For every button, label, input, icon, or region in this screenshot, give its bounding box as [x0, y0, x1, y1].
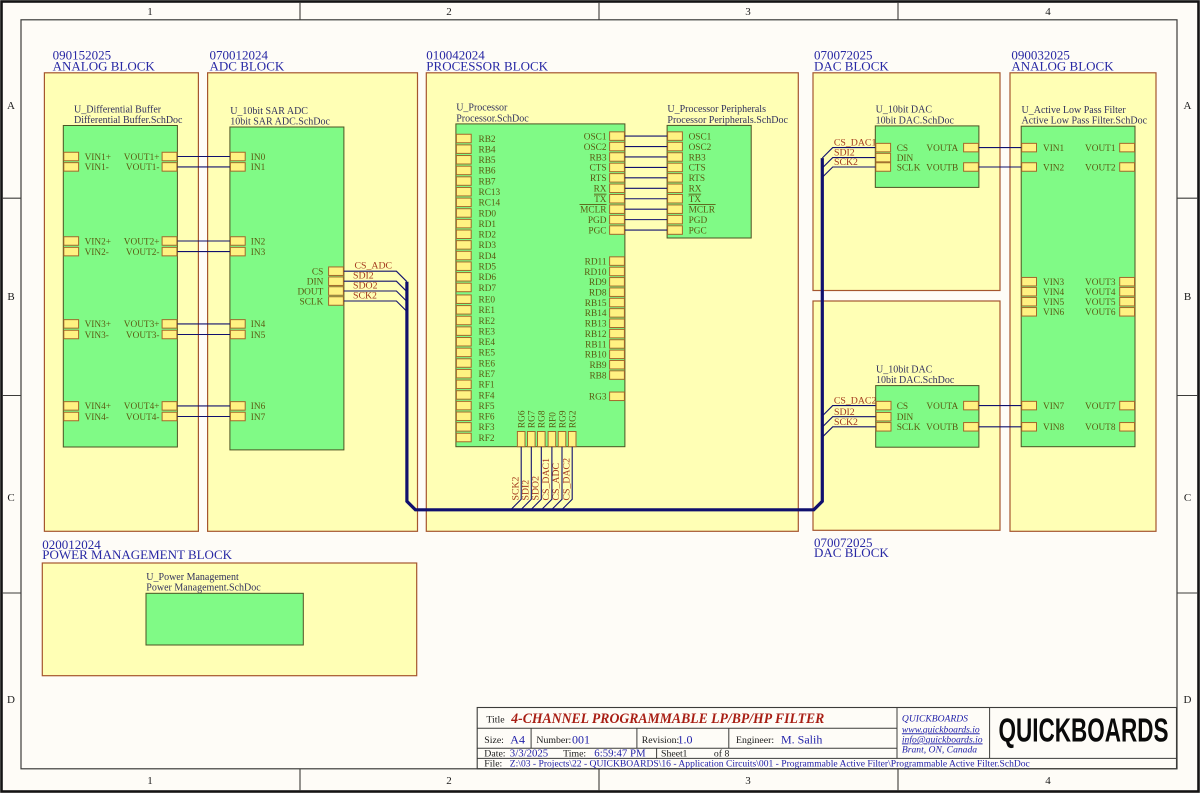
sheet entry PGC — [588, 226, 624, 237]
svg-text:VOUT1+: VOUT1+ — [124, 153, 160, 163]
svg-text:TX: TX — [689, 195, 702, 205]
wire SCK2 to DAC1 — [822, 167, 875, 177]
svg-text:VOUT1-: VOUT1- — [126, 163, 160, 173]
svg-text:VIN2+: VIN2+ — [85, 237, 111, 247]
svg-text:RE7: RE7 — [479, 370, 496, 380]
sheet entry PGD — [588, 215, 625, 226]
sheet entry RC14 — [456, 198, 500, 209]
wire CS_ADC from ADC — [344, 271, 407, 282]
wire SDI2 from ADC — [344, 281, 407, 292]
svg-text:RG3: RG3 — [589, 393, 607, 403]
svg-text:001: 001 — [572, 733, 590, 747]
svg-text:VIN2: VIN2 — [1043, 163, 1065, 173]
sheet entry VIN3- — [64, 330, 109, 341]
svg-text:3: 3 — [745, 6, 751, 18]
blueprint region ANALOG BLOCK right — [1010, 47, 1156, 531]
svg-text:U_10bit SAR ADC: U_10bit SAR ADC — [230, 106, 308, 117]
sheet entry VOUT2- — [126, 247, 177, 258]
svg-text:SCK2: SCK2 — [353, 291, 377, 302]
sheet entry VIN8 — [1022, 423, 1065, 434]
wire SCK2 to DAC2 — [822, 427, 875, 437]
sheet entry RB6 — [456, 166, 496, 177]
wire VOUT2+/IN2 — [177, 240, 230, 242]
svg-text:IN5: IN5 — [251, 331, 266, 341]
svg-text:VIN4-: VIN4- — [85, 413, 109, 423]
svg-text:D: D — [7, 694, 15, 706]
svg-text:Brant, ON, Canada: Brant, ON, Canada — [902, 744, 977, 755]
svg-text:D: D — [1184, 694, 1192, 706]
wire VOUT2-/IN3 — [177, 251, 230, 253]
svg-text:SCLK: SCLK — [897, 163, 921, 173]
sheet entry VOUT1 — [1085, 143, 1134, 154]
wire VOUT1-/IN1 — [177, 166, 230, 168]
svg-text:VIN8: VIN8 — [1043, 423, 1065, 433]
sheet symbol U_10bit SAR ADC — [230, 106, 344, 450]
svg-text:VOUTB: VOUTB — [926, 163, 958, 173]
wire VOUTA/VIN7 — [979, 405, 1021, 407]
svg-text:VIN1-: VIN1- — [85, 163, 109, 173]
svg-text:Z:\03 - Projects\22 - QUICKBOA: Z:\03 - Projects\22 - QUICKBOARDS\16 - A… — [510, 759, 1031, 770]
svg-text:10bit DAC.SchDoc: 10bit DAC.SchDoc — [876, 115, 955, 126]
sheet entry VOUT4+ — [124, 402, 177, 413]
svg-text:1: 1 — [147, 6, 153, 18]
logo QUICKBOARDS — [999, 712, 1169, 749]
svg-text:RD7: RD7 — [479, 284, 497, 294]
sheet entry RB12 — [585, 329, 625, 340]
sheet entry IN6 — [230, 402, 265, 413]
sheet entry RF5 — [456, 401, 494, 412]
wire CS_DAC2 to DAC2 — [822, 406, 875, 416]
svg-text:RB12: RB12 — [585, 330, 607, 340]
svg-text:Power Management.SchDoc: Power Management.SchDoc — [146, 583, 261, 594]
sheet entry RG8 — [538, 410, 548, 447]
svg-text:VOUTB: VOUTB — [926, 423, 958, 433]
svg-text:IN2: IN2 — [251, 237, 266, 247]
svg-text:3/3/2025: 3/3/2025 — [510, 747, 548, 759]
svg-text:VIN1: VIN1 — [1043, 144, 1065, 154]
svg-text:QUICKBOARDS: QUICKBOARDS — [902, 714, 968, 725]
sheet entry OSC1 — [668, 132, 712, 143]
svg-text:PGD: PGD — [588, 216, 607, 226]
sheet entry VOUTA — [926, 401, 978, 412]
svg-text:VOUT3: VOUT3 — [1085, 278, 1116, 288]
svg-text:Processor.SchDoc: Processor.SchDoc — [456, 113, 529, 124]
sheet entry VOUT2 — [1085, 163, 1134, 174]
svg-text:RTS: RTS — [689, 174, 706, 184]
svg-text:U_Processor: U_Processor — [456, 103, 508, 114]
svg-text:RG2: RG2 — [569, 410, 579, 428]
sheet entry RG9 — [558, 410, 568, 447]
svg-text:Size:: Size: — [484, 735, 504, 746]
sheet entry VOUT1+ — [124, 152, 177, 163]
sheet entry OSC2 — [668, 142, 712, 153]
svg-text:RTS: RTS — [590, 174, 607, 184]
sheet entry VOUT3+ — [124, 320, 177, 331]
wire CS_DAC1 to DAC1 — [822, 148, 875, 158]
blueprint region DAC BLOCK top — [813, 47, 1000, 290]
svg-text:File:: File: — [484, 759, 502, 770]
sheet entry VIN3 — [1022, 277, 1065, 288]
sheet entry RG3 — [589, 392, 624, 403]
svg-text:U_Processor Peripherals: U_Processor Peripherals — [667, 104, 766, 115]
svg-text:3: 3 — [745, 775, 751, 787]
wire RG7/SDI2 drop — [521, 447, 532, 510]
svg-text:IN7: IN7 — [251, 413, 266, 423]
sheet entry TX — [594, 194, 624, 205]
sheet entry RTS — [590, 174, 624, 185]
sheet entry RD4 — [456, 251, 496, 262]
svg-text:4: 4 — [1045, 775, 1051, 787]
sheet symbol U_Processor Peripherals — [667, 104, 788, 238]
svg-text:RF3: RF3 — [479, 423, 495, 433]
svg-text:DAC BLOCK: DAC BLOCK — [814, 545, 889, 560]
svg-text:U_10bit DAC: U_10bit DAC — [876, 364, 933, 375]
svg-text:Number:: Number: — [536, 735, 571, 746]
wire RTS processor to peripherals — [625, 177, 667, 179]
svg-text:RB3: RB3 — [689, 153, 706, 163]
svg-text:10bit DAC.SchDoc: 10bit DAC.SchDoc — [876, 375, 955, 386]
sheet entry CS — [876, 143, 908, 154]
svg-text:10bit SAR ADC.SchDoc: 10bit SAR ADC.SchDoc — [230, 116, 330, 127]
svg-text:RD4: RD4 — [479, 252, 497, 262]
sheet entry VOUT4- — [126, 412, 177, 423]
svg-text:VOUTA: VOUTA — [926, 144, 958, 154]
title block — [477, 708, 1176, 769]
sheet entry DIN — [876, 153, 914, 164]
sheet entry RE3 — [456, 327, 495, 338]
svg-text:VOUT4: VOUT4 — [1085, 288, 1116, 298]
svg-text:ANALOG BLOCK: ANALOG BLOCK — [53, 59, 156, 74]
svg-text:VOUT4+: VOUT4+ — [124, 402, 160, 412]
sheet entry RB13 — [585, 319, 625, 330]
svg-text:VOUTA: VOUTA — [926, 402, 958, 412]
sheet entry SCLK — [876, 163, 921, 174]
svg-text:RF2: RF2 — [479, 434, 495, 444]
svg-text:RB9: RB9 — [589, 361, 606, 371]
svg-text:VIN4+: VIN4+ — [85, 402, 111, 412]
svg-text:PGC: PGC — [689, 226, 707, 236]
sheet entry RB11 — [585, 340, 624, 351]
sheet entry PGC — [668, 226, 707, 237]
svg-text:VIN1+: VIN1+ — [85, 153, 111, 163]
svg-text:B: B — [1184, 291, 1191, 303]
sheet entry VIN1+ — [64, 152, 111, 163]
sheet entry SCLK — [300, 297, 344, 308]
svg-text:RB3: RB3 — [589, 153, 606, 163]
svg-text:RD1: RD1 — [479, 220, 497, 230]
svg-text:RF0: RF0 — [548, 412, 558, 428]
sheet entry RE0 — [456, 295, 495, 306]
svg-text:RE5: RE5 — [479, 349, 496, 359]
svg-text:Differential Buffer.SchDoc: Differential Buffer.SchDoc — [74, 115, 183, 126]
sheet entry RC13 — [456, 187, 500, 198]
sheet entry RX — [668, 184, 702, 195]
svg-text:U_Active Low Pass Filter: U_Active Low Pass Filter — [1022, 105, 1127, 116]
sheet entry DIN — [307, 277, 344, 288]
sheet entry OSC1 — [584, 132, 625, 143]
svg-text:RG6: RG6 — [518, 410, 528, 428]
svg-text:OSC1: OSC1 — [584, 132, 607, 142]
svg-text:Revision:: Revision: — [642, 735, 680, 746]
wire RG8/SDO2 drop — [531, 447, 542, 510]
wire VOUTB/VIN8 — [979, 426, 1021, 428]
svg-text:OSC1: OSC1 — [689, 132, 712, 142]
svg-text:VIN2-: VIN2- — [85, 248, 109, 258]
svg-text:ADC BLOCK: ADC BLOCK — [210, 59, 285, 74]
svg-text:SCLK: SCLK — [897, 423, 921, 433]
sheet entry VIN3+ — [64, 320, 111, 331]
svg-text:B: B — [7, 291, 14, 303]
svg-text:RD3: RD3 — [479, 241, 497, 251]
svg-text:PGC: PGC — [588, 226, 606, 236]
sheet entry RD10 — [584, 267, 624, 278]
sheet entry IN5 — [230, 330, 265, 341]
sheet entry CTS — [589, 163, 624, 174]
svg-text:6:59:47 PM: 6:59:47 PM — [594, 747, 646, 759]
sheet entry IN7 — [230, 412, 265, 423]
svg-text:SCK2: SCK2 — [834, 157, 858, 168]
sheet entry RD7 — [456, 283, 496, 294]
svg-text:RE2: RE2 — [479, 317, 496, 327]
title block file row — [484, 759, 1030, 770]
svg-text:Engineer:: Engineer: — [736, 735, 774, 746]
sheet entry RB4 — [456, 145, 496, 156]
svg-text:RX: RX — [594, 185, 607, 195]
svg-text:RB10: RB10 — [585, 351, 607, 361]
svg-text:RX: RX — [689, 185, 702, 195]
svg-text:C: C — [7, 492, 14, 504]
svg-text:RD10: RD10 — [584, 268, 607, 278]
sheet entry RB2 — [456, 134, 496, 145]
sheet symbol U_Differential Buffer — [63, 104, 183, 447]
svg-text:RC14: RC14 — [479, 199, 501, 209]
sheet entry RD3 — [456, 241, 496, 252]
sheet entry IN3 — [230, 247, 265, 258]
svg-text:RF5: RF5 — [479, 402, 495, 412]
wire OSC1 processor to peripherals — [625, 135, 667, 137]
svg-text:VIN4: VIN4 — [1043, 288, 1065, 298]
blueprint region ANALOG BLOCK left — [44, 47, 198, 531]
svg-text:RG8: RG8 — [538, 410, 548, 428]
sheet entry VIN6 — [1022, 308, 1065, 319]
wire RB3 processor to peripherals — [625, 156, 667, 158]
wire RF0/CS_DAC1 drop — [541, 447, 552, 510]
title block date row — [484, 747, 729, 759]
svg-text:VOUT6: VOUT6 — [1085, 308, 1116, 318]
sheet entry RD11 — [585, 257, 625, 268]
sheet entry RE1 — [456, 306, 495, 317]
sheet entry RD0 — [456, 209, 496, 220]
sheet entry RTS — [668, 174, 706, 185]
sheet entry VOUT6 — [1085, 308, 1134, 319]
wire CTS processor to peripherals — [625, 166, 667, 168]
blueprint region DAC BLOCK bottom — [813, 301, 1000, 560]
sheet entry DIN — [876, 412, 913, 423]
sheet entry RD2 — [456, 230, 496, 241]
svg-text:RG9: RG9 — [558, 410, 568, 428]
svg-text:4: 4 — [1045, 6, 1051, 18]
sheet entry RG6 — [517, 410, 527, 447]
svg-text:VIN3: VIN3 — [1043, 278, 1065, 288]
svg-text:CS: CS — [897, 402, 908, 412]
svg-text:A: A — [7, 100, 15, 112]
sheet entry RG7 — [528, 410, 538, 447]
svg-text:VIN5: VIN5 — [1043, 298, 1065, 308]
sheet entry RB9 — [589, 360, 624, 371]
sheet entry RB3 — [589, 153, 624, 164]
sheet entry RF2 — [456, 433, 494, 444]
sheet entry VIN4+ — [64, 402, 111, 413]
wire SDI2 to DAC2 — [822, 417, 875, 427]
svg-text:VOUT2: VOUT2 — [1085, 163, 1116, 173]
sheet symbol U_Active Low Pass Filter — [1021, 105, 1147, 447]
sheet entry RB5 — [456, 156, 496, 167]
sheet entry VIN7 — [1022, 401, 1065, 412]
sheet entry RF6 — [456, 412, 494, 423]
svg-text:RD11: RD11 — [585, 257, 607, 267]
wire RX processor to peripherals — [625, 187, 667, 189]
svg-text:VOUT1: VOUT1 — [1085, 144, 1116, 154]
svg-text:RD8: RD8 — [589, 288, 607, 298]
sheet entry VIN4- — [64, 412, 109, 423]
svg-text:RD0: RD0 — [479, 209, 497, 219]
svg-text:RE0: RE0 — [479, 296, 496, 306]
sheet entry RD1 — [456, 219, 496, 230]
sheet entry RF3 — [456, 423, 494, 434]
sheet symbol U_10bit DAC — [876, 364, 979, 447]
svg-text:OSC2: OSC2 — [689, 143, 712, 153]
bus SPI harness — [407, 158, 822, 510]
title block size row — [484, 733, 822, 747]
svg-text:RD6: RD6 — [479, 273, 497, 283]
sheet entry VOUT7 — [1085, 401, 1134, 412]
svg-text:QUICKBOARDS: QUICKBOARDS — [999, 712, 1169, 749]
svg-text:MCLR: MCLR — [689, 205, 716, 215]
sheet entry RB15 — [585, 298, 625, 309]
svg-text:OSC2: OSC2 — [584, 143, 607, 153]
svg-text:PGD: PGD — [689, 216, 708, 226]
company info QUICKBOARDS — [902, 714, 983, 756]
sheet entry RG2 — [568, 410, 578, 447]
svg-text:MCLR: MCLR — [580, 205, 607, 215]
svg-text:PROCESSOR BLOCK: PROCESSOR BLOCK — [426, 59, 548, 74]
svg-text:DOUT: DOUT — [297, 287, 323, 297]
sheet entry RD5 — [456, 262, 496, 273]
svg-text:U_Power Management: U_Power Management — [146, 572, 239, 583]
sheet entry CS — [876, 401, 908, 412]
svg-text:RB11: RB11 — [585, 340, 607, 350]
sheet entry CTS — [668, 163, 706, 174]
sheet entry RD8 — [589, 288, 624, 299]
svg-text:VOUT7: VOUT7 — [1085, 402, 1116, 412]
sheet symbol U_10bit DAC — [875, 105, 979, 188]
sheet entry RD6 — [456, 273, 496, 284]
wire VOUT3+/IN4 — [177, 323, 230, 325]
sheet entry RB7 — [456, 177, 496, 188]
wire RG6/SCK2 drop — [511, 447, 522, 510]
svg-text:CS: CS — [897, 144, 908, 154]
svg-text:VIN3+: VIN3+ — [85, 320, 111, 330]
svg-text:RF6: RF6 — [479, 413, 495, 423]
svg-text:RF1: RF1 — [479, 381, 495, 391]
svg-text:VOUT4-: VOUT4- — [126, 413, 160, 423]
wire OSC2 processor to peripherals — [625, 146, 667, 148]
svg-text:IN0: IN0 — [251, 153, 266, 163]
sheet entry VOUT1- — [126, 163, 177, 174]
sheet entry TX — [668, 194, 702, 205]
svg-text:RD9: RD9 — [589, 278, 607, 288]
sheet entry RF0 — [548, 412, 558, 447]
sheet entry RE7 — [456, 369, 495, 380]
svg-text:RB8: RB8 — [589, 371, 606, 381]
sheet entry VIN1 — [1022, 143, 1065, 154]
svg-text:CTS: CTS — [589, 164, 606, 174]
svg-text:A: A — [1184, 100, 1192, 112]
svg-text:VOUT3-: VOUT3- — [126, 331, 160, 341]
svg-text:RB4: RB4 — [479, 145, 496, 155]
wire PGC processor to peripherals — [625, 229, 667, 231]
wire PGD processor to peripherals — [625, 219, 667, 221]
svg-text:U_10bit DAC: U_10bit DAC — [876, 105, 933, 116]
wire MCLR processor to peripherals — [625, 208, 667, 210]
svg-text:RE1: RE1 — [479, 306, 496, 316]
svg-text:CS_DAC2: CS_DAC2 — [834, 396, 877, 407]
svg-text:RD2: RD2 — [479, 231, 497, 241]
svg-text:RC13: RC13 — [479, 188, 501, 198]
svg-text:RB15: RB15 — [585, 299, 607, 309]
svg-text:2: 2 — [446, 6, 452, 18]
sheet entry VIN4 — [1022, 287, 1065, 298]
svg-text:IN1: IN1 — [251, 163, 266, 173]
svg-text:RE3: RE3 — [479, 327, 496, 337]
sheet entry DOUT — [297, 287, 343, 298]
svg-text:POWER MANAGEMENT BLOCK: POWER MANAGEMENT BLOCK — [42, 547, 232, 562]
sheet entry VIN2+ — [64, 237, 111, 248]
sheet entry VOUT2+ — [124, 237, 177, 248]
sheet entry RF4 — [456, 391, 494, 402]
wire VOUTA/VIN1 — [979, 147, 1021, 149]
svg-text:CS: CS — [312, 268, 323, 278]
svg-text:Active Low Pass Filter.SchDoc: Active Low Pass Filter.SchDoc — [1022, 116, 1148, 127]
sheet entry RE2 — [456, 316, 495, 327]
blueprint region ADC BLOCK — [208, 47, 418, 531]
wire VOUT4-/IN7 — [177, 416, 230, 418]
svg-text:SDO2: SDO2 — [531, 476, 542, 501]
svg-text:TX: TX — [594, 195, 607, 205]
svg-text:VIN7: VIN7 — [1043, 402, 1065, 412]
sheet entry VIN2- — [64, 247, 109, 258]
blueprint region POWER MANAGEMENT BLOCK — [42, 537, 416, 676]
svg-text:IN3: IN3 — [251, 248, 266, 258]
blueprint region PROCESSOR BLOCK — [426, 47, 798, 531]
sheet entry VIN2 — [1022, 163, 1065, 174]
sheet entry IN1 — [230, 163, 265, 174]
sheet entry RE4 — [456, 338, 495, 349]
svg-text:RB6: RB6 — [479, 167, 496, 177]
svg-text:VOUT5: VOUT5 — [1085, 298, 1116, 308]
sheet entry VIN1- — [64, 163, 109, 174]
sheet entry MCLR — [668, 205, 716, 216]
sheet entry RB10 — [585, 350, 625, 361]
svg-text:DIN: DIN — [307, 278, 324, 288]
wire VOUT4+/IN6 — [177, 405, 230, 407]
svg-text:VIN6: VIN6 — [1043, 308, 1065, 318]
wire VOUT3-/IN5 — [177, 334, 230, 336]
sheet entry IN0 — [230, 152, 265, 163]
sheet entry VOUT3- — [126, 330, 177, 341]
svg-text:RG7: RG7 — [528, 410, 538, 428]
wire VOUTB/VIN2 — [979, 166, 1021, 168]
